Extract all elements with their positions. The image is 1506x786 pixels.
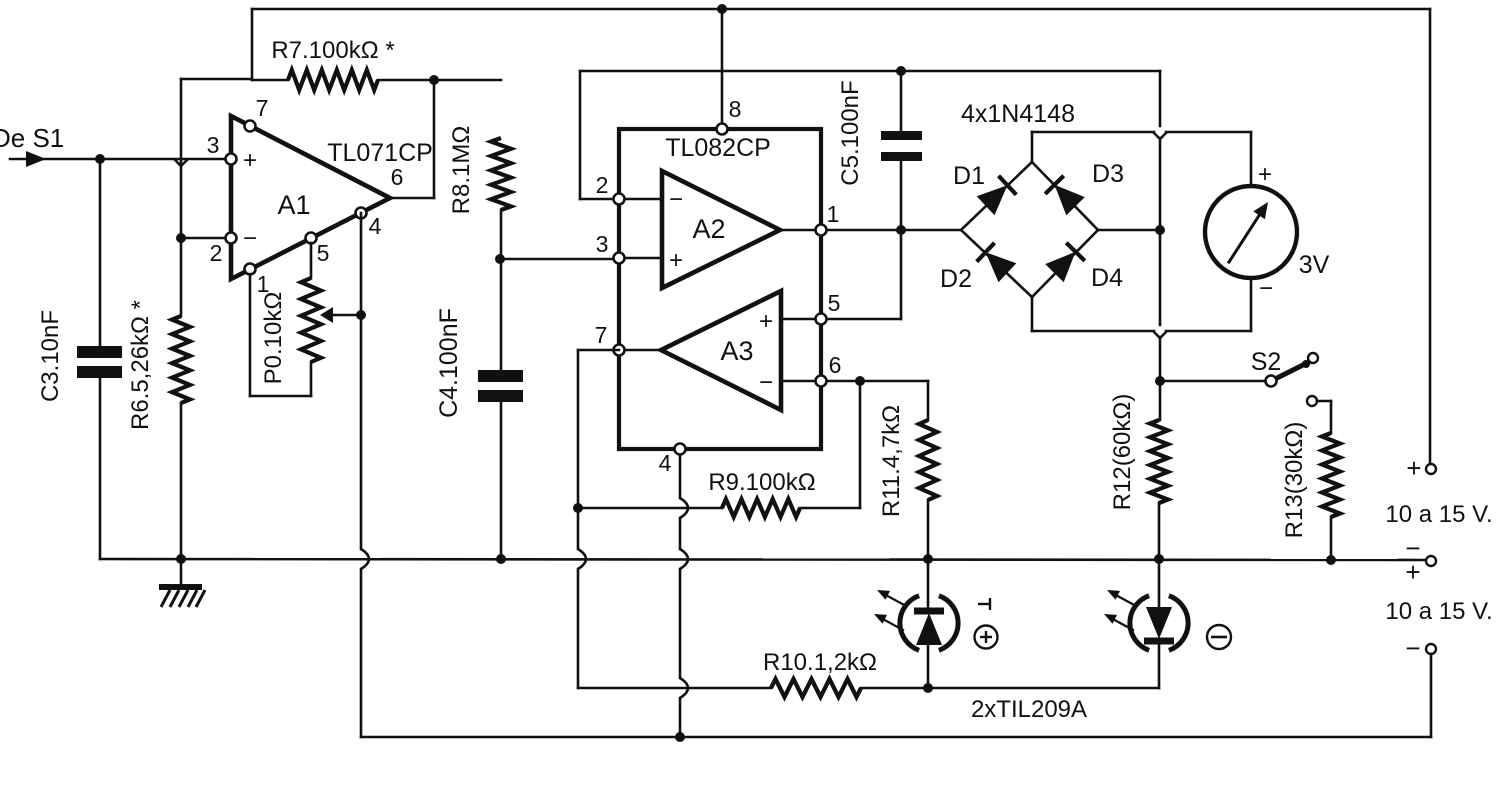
svg-text:2: 2 [210, 240, 223, 266]
wire pin6 node drop to R9 [859, 381, 862, 508]
wire pin8 riser from top rail [721, 9, 724, 126]
wire A1 output [390, 197, 434, 200]
wire pin4 hop over LED line [680, 678, 688, 698]
wire pin4 drop to bottom rail [679, 455, 682, 498]
wire pin5 to A3 plus [781, 318, 815, 321]
wire bridge arm D2 [961, 230, 1032, 297]
svg-text:2: 2 [596, 172, 609, 198]
pin 6 of TL082 [816, 376, 827, 387]
pin 2 of A1 [226, 233, 237, 244]
wire C3 top lead [99, 159, 102, 346]
wire C3 bottom lead [99, 378, 102, 559]
svg-text:4: 4 [659, 450, 672, 476]
svg-text:−: − [759, 369, 773, 396]
wire bridge bottom to meter [1032, 330, 1154, 333]
wire P0 wiper [324, 314, 361, 317]
pin 4 of A1 [356, 208, 367, 219]
node input/C3 junction [95, 154, 105, 164]
terminal mid [1426, 556, 1436, 566]
svg-text:+: + [243, 147, 257, 174]
switch S2 pivot [1266, 376, 1277, 387]
wire to pin3 of A2 [500, 258, 613, 261]
svg-text:5: 5 [828, 290, 841, 316]
resistor R11 [919, 420, 937, 500]
svg-text:R10.1,2kΩ: R10.1,2kΩ [763, 649, 877, 676]
op-amp A1 [231, 116, 390, 279]
svg-text:3: 3 [207, 132, 220, 158]
svg-text:2xTIL209A: 2xTIL209A [971, 696, 1087, 723]
wire meter wire hop over V+ drop [1153, 132, 1167, 139]
capacitor C4 [478, 370, 523, 382]
label LED1 polarity circle [975, 626, 998, 649]
wire LED1 top lead [927, 559, 930, 610]
node pin1/C5/pin5 junction [896, 225, 906, 235]
svg-text:−: − [1259, 275, 1273, 302]
wire pin6 to R11 [827, 380, 928, 383]
wire bridge bottom riser [1031, 297, 1034, 331]
svg-text:+: + [1258, 161, 1272, 188]
wire mid bus [100, 559, 1426, 560]
node wiper/pin4 junction [356, 310, 366, 320]
wire input arrowhead [26, 151, 46, 167]
op-amp A3 [661, 291, 781, 410]
svg-text:P0.10kΩ: P0.10kΩ [260, 292, 287, 385]
wire pin2 to A2 [625, 198, 662, 201]
op-amp A2 [662, 171, 780, 288]
wire meter bottom hop over V+ drop [1153, 331, 1167, 338]
capacitor C5 [881, 131, 922, 140]
wire P0 wiper arrowhead [320, 307, 333, 323]
svg-text:6: 6 [391, 164, 404, 190]
wire P0 bottom U [310, 362, 313, 396]
wire R7 left lead [252, 79, 288, 82]
svg-text:5: 5 [317, 240, 330, 266]
node pin4/bottom-rail junction [675, 732, 685, 742]
resistor R9 [722, 499, 800, 517]
wire A3 output to pin7 [625, 349, 661, 352]
switch S2 throw contact [1308, 353, 1318, 363]
wire V+ drop column [1159, 71, 1162, 126]
diode D1 [977, 185, 1008, 215]
svg-text:D1: D1 [953, 162, 985, 190]
wire C4 bottom lead [500, 402, 503, 559]
pin 4 of TL082 [675, 444, 686, 455]
wire bottom rail V- [361, 736, 1431, 739]
svg-text:D2: D2 [940, 265, 972, 293]
svg-text:+: + [1405, 557, 1420, 587]
wire R8 bottom lead [500, 210, 503, 259]
LED LD1 circle [900, 596, 919, 651]
wire S2 to R13 [1317, 400, 1331, 403]
LED LD1 emission arrows [884, 594, 906, 606]
svg-text:1: 1 [827, 201, 840, 227]
wire C4 top lead [500, 259, 503, 370]
svg-text:R9.100kΩ: R9.100kΩ [708, 469, 815, 496]
pin 7 of A1 [245, 121, 256, 132]
wire pin6 to A3 minus [781, 380, 815, 383]
wire right border V+ drop [1429, 9, 1432, 463]
svg-text:+: + [759, 308, 773, 335]
node LED1 bus junction [923, 554, 933, 564]
wire bridge top to meter [1032, 131, 1154, 134]
wire bridge top riser [1031, 132, 1034, 162]
pin 1 of TL082 [816, 225, 827, 236]
wire meter top lead [1250, 132, 1253, 186]
node R7/output/R8 junction [429, 75, 439, 85]
wire pin4 hop over bus [680, 549, 688, 569]
node C4 bus junction [496, 554, 506, 564]
pin 5 of TL082 [816, 314, 827, 325]
diode D4 [1045, 252, 1075, 282]
svg-text:10 a 15 V.: 10 a 15 V. [1385, 501, 1492, 528]
svg-text:7: 7 [595, 322, 608, 348]
pin 7 of TL082 [614, 345, 625, 356]
meter needle [1229, 211, 1262, 262]
svg-text:6: 6 [829, 352, 842, 378]
wire input line [10, 158, 226, 161]
resistor R13 [1322, 433, 1340, 517]
svg-text:D4: D4 [1091, 264, 1123, 292]
resistor R7 [288, 70, 378, 90]
node pin7/R9 junction [573, 503, 583, 513]
wire input hop over feedback [174, 159, 188, 166]
svg-text:De S1: De S1 [0, 123, 64, 153]
svg-text:8: 8 [729, 96, 742, 122]
svg-text:R7.100kΩ *: R7.100kΩ * [271, 37, 394, 64]
svg-text:R13(30kΩ): R13(30kΩ) [1281, 422, 1308, 539]
wire S2 feed [1160, 380, 1265, 383]
node LED2 bus junction [1154, 554, 1164, 564]
svg-text:R12(60kΩ): R12(60kΩ) [1109, 394, 1136, 511]
wire meter bottom lead [1250, 278, 1253, 331]
wire LED drive line [578, 687, 771, 690]
terminal minus lower [1426, 644, 1436, 654]
svg-text:4x1N4148: 4x1N4148 [961, 100, 1075, 128]
wire A1 output riser [433, 80, 436, 198]
wire R9 right lead [800, 507, 860, 510]
wire pin5 to output node [827, 318, 901, 321]
diode D3 [1055, 185, 1085, 216]
node R8/C4/pin3 junction [495, 254, 505, 264]
wire V+ horizontal to bridge bus [580, 70, 1160, 73]
resistor R8 [491, 138, 511, 210]
svg-text:A1: A1 [277, 190, 310, 220]
svg-text:3: 3 [596, 231, 609, 257]
node bridge right junction [1155, 225, 1165, 235]
wire pin4 hop over bus [361, 549, 369, 569]
pin 8 of TL082 [717, 124, 728, 135]
wire pin3 to A2 [625, 257, 662, 260]
wire LED2 top lead [1158, 560, 1161, 610]
wire feedback left drop to pin2 [180, 79, 183, 238]
wire R13 bottom lead [1330, 517, 1333, 560]
svg-text:−: − [669, 186, 683, 213]
wire A2 output [780, 229, 815, 232]
node pin6 junction [855, 376, 865, 386]
svg-text:7: 7 [256, 95, 269, 121]
svg-text:C4.100nF: C4.100nF [435, 308, 463, 418]
ground [159, 584, 202, 590]
capacitor C3 [77, 346, 122, 358]
wire lower terminal drop [1430, 654, 1433, 737]
svg-text:10 a 15 V.: 10 a 15 V. [1385, 598, 1492, 625]
wire LED2 bottom lead [1158, 644, 1161, 688]
svg-text:−: − [1405, 633, 1420, 663]
svg-text:3V: 3V [1299, 251, 1330, 279]
svg-text:S2: S2 [1251, 348, 1282, 376]
wire R11 bottom lead [927, 500, 930, 559]
label LED2 polarity circle [1207, 625, 1231, 649]
resistor R10 [771, 679, 861, 697]
svg-text:+: + [669, 247, 683, 274]
wire P0 top lead from pin5 [310, 243, 313, 278]
node ground junction [176, 554, 186, 564]
resistor R6 [172, 316, 190, 403]
wire C5 top lead [900, 71, 903, 131]
LED LD2 diode [1146, 607, 1172, 639]
pin 3 of TL082 [614, 253, 625, 264]
wire top rail V+ [252, 8, 1430, 11]
wire bridge arm D4 [1032, 230, 1098, 297]
node C5 top junction [896, 66, 906, 76]
diode D2 [986, 252, 1017, 282]
switch S2 lower contact [1307, 396, 1317, 406]
wire bridge arm D3 [1032, 162, 1098, 230]
node pin2/R6 junction [176, 233, 186, 243]
svg-text:TL071CP: TL071CP [327, 139, 433, 167]
pin 2 of TL082 [614, 194, 625, 205]
wire R7 right lead to node [378, 79, 501, 82]
wire feedback top [181, 78, 252, 81]
wire ground lead [180, 559, 183, 586]
wire R11 top lead [927, 381, 930, 420]
switch S2 lever [1277, 363, 1307, 378]
wire pin7 hop over bus [578, 549, 586, 569]
svg-text:TL082CP: TL082CP [665, 134, 771, 162]
svg-text:R6.5,26kΩ *: R6.5,26kΩ * [127, 300, 154, 430]
wire left drop to pin2 A2 [579, 71, 582, 199]
wire LED1 bottom lead [927, 645, 930, 688]
LED LD2 circle [1130, 596, 1149, 651]
node S2 junction [1155, 376, 1165, 386]
node LED1 bottom junction [923, 683, 933, 693]
IC box TL082 [619, 129, 821, 449]
wire C5 bottom lead [900, 161, 903, 230]
pin 3 of A1 [226, 154, 237, 165]
svg-text:4: 4 [369, 213, 382, 239]
svg-text:D3: D3 [1092, 160, 1124, 188]
node top-rail junction [717, 4, 727, 14]
wire R9 left lead [578, 507, 722, 510]
svg-text:+: + [1406, 453, 1421, 483]
svg-text:R8.1MΩ: R8.1MΩ [448, 126, 475, 215]
label LED1 plus mark [978, 603, 990, 605]
wire bridge arm D1 [961, 162, 1032, 230]
svg-text:A2: A2 [692, 214, 725, 244]
wire pin4 hop over R9 line [680, 498, 688, 518]
wire R6 bottom lead [180, 403, 183, 558]
wire R6 top lead [180, 238, 183, 316]
svg-text:A3: A3 [720, 336, 753, 366]
pin 1 of A1 [245, 264, 256, 275]
meter M1 3V [1205, 186, 1297, 278]
svg-text:C5.100nF: C5.100nF [837, 80, 864, 185]
resistor R12 [1150, 420, 1168, 503]
node R13 bus junction [1326, 555, 1336, 565]
wire bridge right to V+ drop [1098, 229, 1160, 232]
wire R12 bottom lead [1158, 503, 1161, 560]
wire pin1 to bridge [827, 229, 961, 232]
terminal plus upper [1426, 464, 1436, 474]
svg-text:R11.4,7kΩ: R11.4,7kΩ [878, 405, 905, 517]
LED LD1 diode [916, 613, 942, 645]
potentiometer P0 [301, 278, 321, 362]
wire pin7 drop [578, 349, 619, 352]
LED LD2 emission arrows [1114, 594, 1136, 606]
svg-text:−: − [243, 225, 257, 252]
pin 5 of A1 [306, 233, 317, 244]
svg-text:C3.10nF: C3.10nF [37, 310, 64, 402]
wire pin4 drop [360, 213, 363, 549]
wire R7 left riser [251, 9, 254, 80]
